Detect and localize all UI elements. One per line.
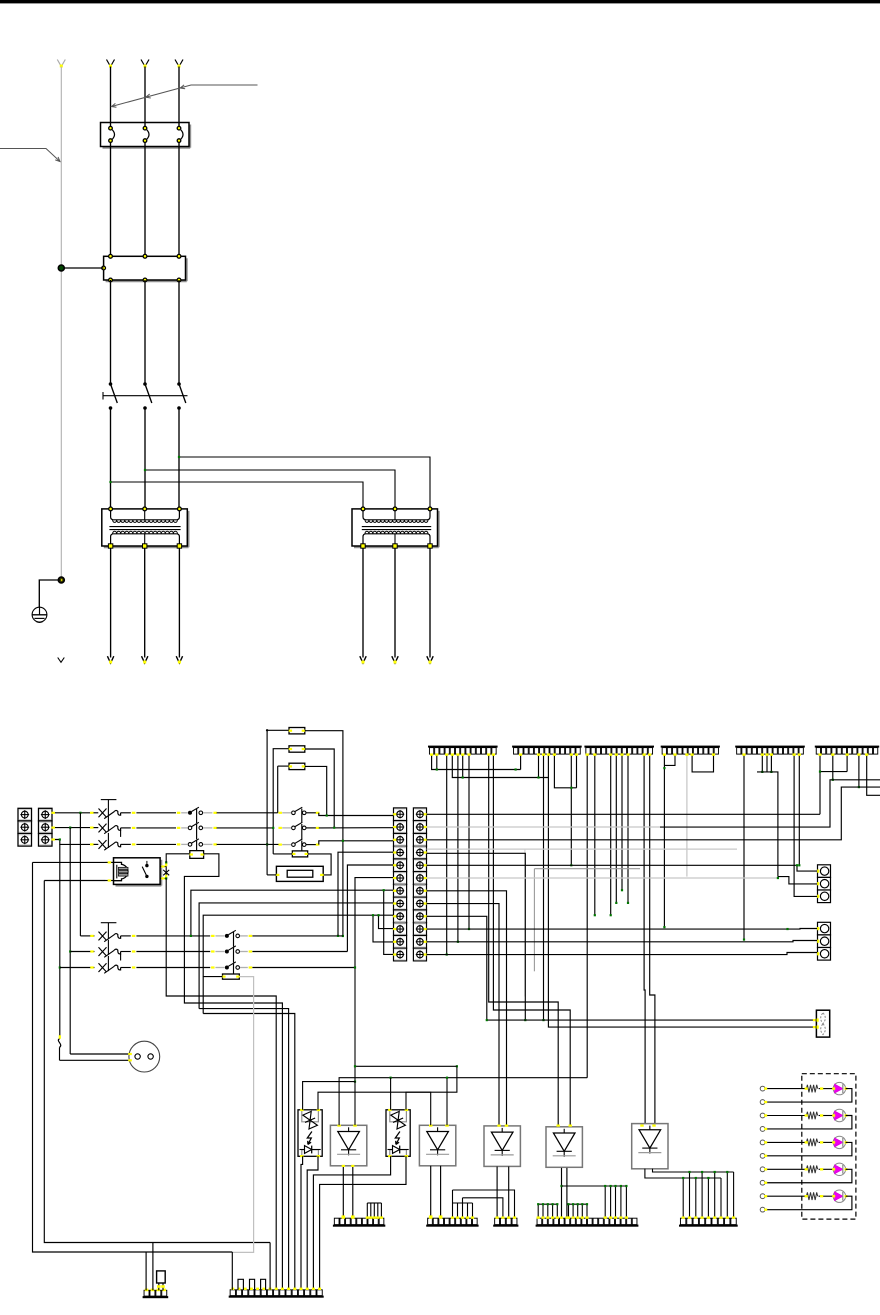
J6 t7 wire [846, 754, 848, 771]
optocoupler U2 [386, 1110, 410, 1157]
link S1 b [196, 824, 198, 839]
terminal header J6 [815, 746, 879, 748]
wire r1 mid [217, 812, 278, 814]
phase L3 incoming arrow [175, 60, 179, 67]
loop3 wire [277, 766, 279, 813]
cord squiggle [58, 1039, 60, 1048]
r9 wire right [427, 916, 487, 1020]
breaker F3 pole1 [99, 932, 107, 941]
rectifier V3 [484, 1126, 520, 1167]
rectifier terminal marks [337, 1124, 340, 1126]
wire left top [33, 861, 106, 863]
breaker F3 pole3 [99, 963, 107, 972]
contactor K2 row 812.8 [292, 811, 296, 815]
wire O2 left riser [390, 1078, 392, 1110]
J6 t4 wire [832, 754, 834, 779]
J1 t6 wire [457, 754, 459, 941]
small comb wire b [152, 1243, 154, 1291]
link K2 b [301, 824, 303, 840]
r8 bundle link [199, 1009, 289, 1290]
wire L2 to contactor [144, 147, 146, 257]
wire L3 supply [178, 67, 180, 127]
wire B out [121, 951, 131, 953]
J6 t1 wire [819, 754, 821, 814]
wire H_c [339, 1078, 587, 1126]
r9 bundle link [203, 1014, 295, 1290]
coil resistor K2 [292, 851, 307, 857]
bottom comb marks [231, 1288, 234, 1290]
wire H_a [303, 1082, 355, 1126]
gray wire in [181, 827, 188, 829]
incoming PE conductor arrow [57, 60, 61, 67]
J4 t1 wire [663, 754, 665, 927]
J1 t1 wire [432, 754, 521, 769]
long wire left A [33, 862, 233, 1252]
wire L1 down [110, 408, 112, 509]
J1 t5 wire [452, 754, 548, 777]
drop wire phase3 upper [59, 844, 61, 1038]
J1 t2 wire [436, 754, 438, 769]
connector XP2 [818, 922, 831, 935]
contact S3 row 951.5 [225, 950, 229, 954]
J2 t11 wire [570, 754, 572, 865]
link S1 c [196, 840, 198, 851]
F9 pin a [158, 1283, 160, 1290]
J2 t7 wire [548, 754, 816, 1027]
K2 r3 out [306, 844, 316, 846]
loop2 wire [273, 749, 289, 854]
r4 wire gray [427, 848, 738, 850]
O1 supply link [354, 968, 356, 1082]
coil wire right [308, 854, 331, 875]
drop wire phase1 [79, 813, 81, 936]
terminal comb K_V3 [493, 1225, 518, 1227]
wire H_b [318, 1092, 431, 1125]
terminal header J3 [584, 746, 654, 748]
wire after breaker [121, 812, 131, 814]
secondary wire 4 [362, 548, 364, 658]
link S1 a [196, 809, 198, 823]
loop2 right wire [305, 749, 334, 828]
LED panel dashed box [802, 1074, 856, 1219]
J4 t3 wire [664, 754, 675, 765]
resistor right wire [184, 854, 282, 1290]
lower comb landing marks [342, 1216, 345, 1218]
drop wire phase3 lower [59, 1048, 61, 1061]
output arrow 1 [107, 656, 113, 663]
aux breaker X [160, 866, 166, 868]
socket wire low [60, 1059, 130, 1061]
contact S1 row 844.4 [188, 843, 192, 847]
disconnect switch Q1 [102, 392, 104, 400]
resistor RC3 [289, 763, 305, 769]
terminal comb K_V5 [679, 1225, 738, 1227]
wire B3 in [60, 967, 95, 969]
wire r2 mid [217, 827, 274, 829]
J1 t7 wire [462, 754, 464, 777]
node row1 drop [79, 812, 81, 814]
node r2 loop2r [333, 827, 335, 829]
V2 pin a [430, 1166, 432, 1217]
secondary wire 1 [110, 548, 112, 658]
J5 t12 wire [798, 754, 800, 865]
wire L3 to contactor [178, 147, 180, 257]
node r11 [372, 914, 374, 916]
transformer T1 [104, 546, 189, 548]
loop3 right wire [305, 766, 327, 815]
coil wire left [273, 853, 292, 855]
V3 feeder lower [463, 1198, 503, 1217]
gray wire out [203, 812, 212, 814]
r4 wire right [427, 853, 526, 1020]
J5 link wire [757, 772, 778, 877]
S3 coil right wire [232, 977, 253, 1253]
wire R2 right riser [446, 1078, 448, 1126]
node r3 loop1 [266, 843, 268, 845]
V4 jumper block R [569, 1203, 588, 1205]
relay resistor [190, 851, 204, 859]
secondary wire 5 [394, 548, 396, 658]
gray wire in3 [215, 935, 224, 937]
oval upper wire [487, 1019, 817, 1021]
PE junction node [58, 265, 64, 271]
gray wire C2 r3 in [278, 843, 282, 845]
link S3 a [233, 932, 235, 947]
connector XP1 [818, 865, 831, 878]
wire B1 in [80, 935, 94, 937]
small comb wire a [145, 1252, 147, 1290]
wire L3 down [178, 408, 180, 509]
wire B out [121, 935, 131, 937]
terminal header J5 [735, 746, 805, 748]
output arrow 6 [427, 656, 433, 663]
terminal strip X2 [394, 808, 407, 821]
J5 t2 wire [743, 754, 745, 939]
J2 t6 wire [543, 754, 545, 1020]
terminal header J2 [512, 746, 582, 748]
r6 wire right gray [427, 877, 778, 879]
K1 contact [145, 864, 148, 867]
terminal comb K_V2 [426, 1225, 478, 1227]
node phase2 B [69, 950, 71, 952]
output arrow 2 [142, 656, 148, 663]
PE bond wire [61, 267, 103, 269]
B1 wire right [252, 935, 343, 937]
breaker F2 pole1 [99, 809, 107, 818]
coil box left wire [267, 874, 276, 876]
resistor RC2 [289, 746, 305, 752]
J4 t5 gray wire [686, 754, 688, 876]
fuse component F9 [157, 1271, 166, 1283]
wire B out [121, 967, 131, 969]
J1 t4 wire [446, 754, 448, 954]
V1 jumper block [366, 1203, 368, 1217]
V4 pin a [561, 1168, 563, 1217]
comb jumper 1 [238, 1279, 243, 1290]
gray out3 [240, 935, 248, 937]
wire L1 supply [110, 67, 112, 127]
loop1 right wire [305, 731, 343, 936]
breaker F3 pole2 [99, 947, 107, 956]
wire L2 down [144, 408, 146, 509]
r7 feeder [191, 890, 394, 936]
gray wire in3 [215, 967, 224, 969]
output arrow 4 [360, 656, 366, 663]
J3 t13 wire [650, 754, 655, 1123]
link K2 a [301, 809, 303, 823]
branch L3 to T2 [179, 457, 430, 509]
node phase3 B [59, 966, 61, 968]
resistor left wire [166, 854, 189, 863]
node L2 branch [144, 469, 146, 471]
gray out3 [240, 967, 248, 969]
gray drop b [533, 869, 535, 972]
output arrow 5 [392, 656, 398, 663]
comb jumper 2 [250, 1279, 255, 1290]
wire X1 row1b [94, 812, 99, 814]
wire r3 mid [217, 843, 279, 845]
PE continuation chevron [58, 658, 65, 663]
r5 feeder [347, 865, 393, 952]
V4 jumper block L [538, 1203, 557, 1205]
loop1 corner dot [266, 729, 268, 731]
contact S1 row 812.8 [188, 811, 192, 815]
gray wire C2 r1 in [278, 812, 282, 814]
link K2 c [301, 841, 303, 851]
optocoupler U1 [298, 1110, 322, 1157]
drop wire phase2 [69, 828, 71, 1054]
J3 t2 wire [594, 754, 596, 915]
earth branch wire [39, 580, 61, 607]
K1 wire in top [106, 861, 114, 863]
J1 t12 wire [489, 754, 559, 1126]
node B1 r7 [190, 935, 192, 937]
protective earth symbol [32, 607, 47, 622]
J3 t1 wire [586, 754, 588, 1077]
device box K2 coil [276, 866, 323, 881]
secondary wire 2 [144, 548, 146, 658]
node r3 loop1r [342, 840, 344, 842]
secondary wire 3 [178, 548, 180, 658]
wire L3 to switch [178, 280, 180, 384]
branch L2 to T2 [145, 470, 395, 509]
J1 t13 wire [493, 754, 570, 1126]
J5 t7 wire [770, 754, 772, 772]
wire O2 right riser [406, 1066, 457, 1110]
coil resistor S3 [223, 974, 240, 979]
gray out3 [240, 951, 248, 953]
node row2 drop [69, 827, 71, 829]
wire after breaker [121, 843, 131, 845]
B2 wire right [252, 951, 347, 953]
r3 wire right [427, 787, 880, 840]
fuse disconnector F1 [103, 147, 191, 149]
socket wire up [70, 1053, 129, 1055]
node r2 loop2 [272, 827, 274, 829]
node r12 [383, 889, 385, 891]
r12 feeder [384, 890, 394, 954]
J3 t7 wire [621, 754, 623, 890]
r10 feeder [379, 915, 394, 928]
wire L2 to switch [144, 280, 146, 384]
PE conductor wire [60, 67, 62, 581]
J3 t8 wire [627, 754, 629, 903]
terminal header J1 [428, 746, 498, 748]
J3 t12 wire [644, 754, 645, 1123]
K2 r1 out [306, 812, 316, 814]
phase L2 incoming arrow [141, 60, 145, 67]
node r6 gray [777, 877, 779, 879]
V3 pin b [508, 1167, 510, 1218]
S3 coil left wire [203, 976, 223, 978]
secondary wire 6 [429, 548, 431, 658]
terminal block X1 [18, 808, 32, 821]
wire L1 to contactor [110, 147, 112, 257]
breaker F2 pole3 [99, 840, 107, 849]
J2 t12 wire [576, 754, 578, 787]
wire L1 to switch [110, 280, 112, 384]
wire X1 row3 [52, 840, 91, 845]
wire X1 row1 [52, 812, 91, 814]
rectifier V4 [546, 1127, 582, 1168]
node r10 [377, 914, 379, 916]
connector XP3 single [816, 1010, 829, 1037]
node r1 loop3 [326, 814, 328, 816]
J2 t8 wire [554, 754, 576, 787]
r7 wire right [427, 891, 507, 1126]
V1 pin a [342, 1166, 344, 1217]
transformer T2 [354, 546, 439, 548]
socket outlet [129, 1041, 160, 1072]
node r6 o1 [354, 966, 356, 968]
J6 t11 wire [867, 754, 880, 795]
O2 pin out b [320, 1156, 406, 1290]
output arrow 3 [176, 656, 182, 663]
terminal header J4 [661, 746, 720, 748]
terminal comb K_V4 [536, 1225, 639, 1227]
V4 right feeder bus [562, 1185, 627, 1187]
B3 wire right [252, 967, 355, 969]
terminal comb K_V1 [333, 1225, 385, 1227]
V5 bus a [653, 1169, 734, 1172]
gray wire C2 r2 in [278, 827, 282, 829]
J6 t10 wire [858, 754, 860, 787]
r4 feeder [338, 852, 394, 936]
J6 bus a [820, 771, 847, 773]
bus 1066 [355, 1065, 457, 1067]
K1 wire in bottom [106, 880, 114, 882]
gray wire in [181, 812, 188, 814]
h2 corner drop [231, 1252, 233, 1290]
h1 corner drop [269, 1243, 271, 1290]
r10 wire right [427, 928, 818, 931]
PE junction to earth [58, 577, 64, 583]
J5 t11 wire [794, 754, 817, 896]
O2 pin out a [313, 1156, 390, 1290]
r6 feeder [355, 878, 394, 968]
leader line to phase wires [112, 85, 258, 107]
O1 pin out b [307, 1156, 318, 1290]
contactor K2 row 844.6 [292, 843, 296, 847]
resistor RC1 [289, 728, 305, 734]
bottom comb main [229, 1296, 324, 1298]
r11 feeder [373, 915, 394, 942]
r9 feeder [203, 915, 393, 1013]
main filter box Z1 [106, 280, 187, 282]
J5 t5 wire [761, 754, 763, 772]
V3 pin a [496, 1167, 498, 1218]
comb jumper 3 [261, 1279, 266, 1290]
gray wire out [203, 827, 212, 829]
r8 feeder [199, 903, 393, 1009]
r5 wire right [427, 865, 818, 871]
strip X2 terminal marks [393, 813, 396, 815]
small comb marks [145, 1289, 149, 1292]
J2 t5 wire [538, 754, 540, 777]
wire B2 in [70, 951, 94, 953]
gray wire in [181, 843, 188, 845]
V4 pin b [566, 1168, 568, 1217]
gray wire out [203, 843, 212, 845]
wire L2 supply [144, 67, 146, 127]
node L3 branch [178, 456, 180, 458]
leader line to PE wire [0, 149, 60, 162]
r2 wire right gray [427, 826, 661, 828]
long wire left B [44, 881, 270, 1243]
V2 pin b [440, 1166, 442, 1217]
rectifier V2 [419, 1125, 455, 1166]
rectifier V1 [330, 1125, 366, 1166]
J3 t5 wire [610, 754, 612, 915]
J3 t6 wire [615, 754, 617, 903]
gray drop a [524, 849, 526, 996]
breaker F2 pole2 [99, 824, 107, 833]
V5 bus b [645, 1169, 721, 1178]
V3 feeder upper [453, 1190, 515, 1217]
gray wire in3 [215, 951, 224, 953]
contactor K2 row 827.9 [292, 826, 296, 830]
contact S3 row 935.9 [225, 934, 229, 938]
LED indicator bank [760, 1086, 765, 1091]
V2 jumper block [452, 1190, 454, 1217]
r12 wire right [427, 953, 818, 955]
V1 pin b [352, 1166, 354, 1217]
node L1 branch [109, 481, 111, 483]
node row3 drop [59, 838, 61, 840]
F9 pin b [162, 1283, 164, 1290]
K2 r2 out [306, 827, 316, 829]
loop1 wire [267, 730, 289, 875]
J2 t2 wire [520, 754, 522, 769]
J4 loop wire [692, 754, 713, 772]
contact S3 row 967.5 [225, 966, 229, 970]
XP1 feed B [778, 877, 818, 884]
X element down wire [166, 878, 276, 1289]
r1 wire right [427, 813, 821, 815]
phase L1 incoming arrow [107, 60, 111, 67]
wire X1 row2 [52, 827, 91, 829]
r8 wire right [427, 904, 500, 1126]
J1 t8 wire [468, 754, 470, 929]
page top border [0, 0, 880, 3]
K1 coil symbol [114, 862, 128, 880]
relay box K1 [116, 885, 162, 887]
contact S1 row 827.9 [188, 826, 192, 830]
wire after breaker [121, 827, 131, 829]
branch L1 to T2 [111, 482, 364, 509]
wire left bottom [44, 880, 105, 882]
J5 t6 wire [766, 754, 768, 772]
